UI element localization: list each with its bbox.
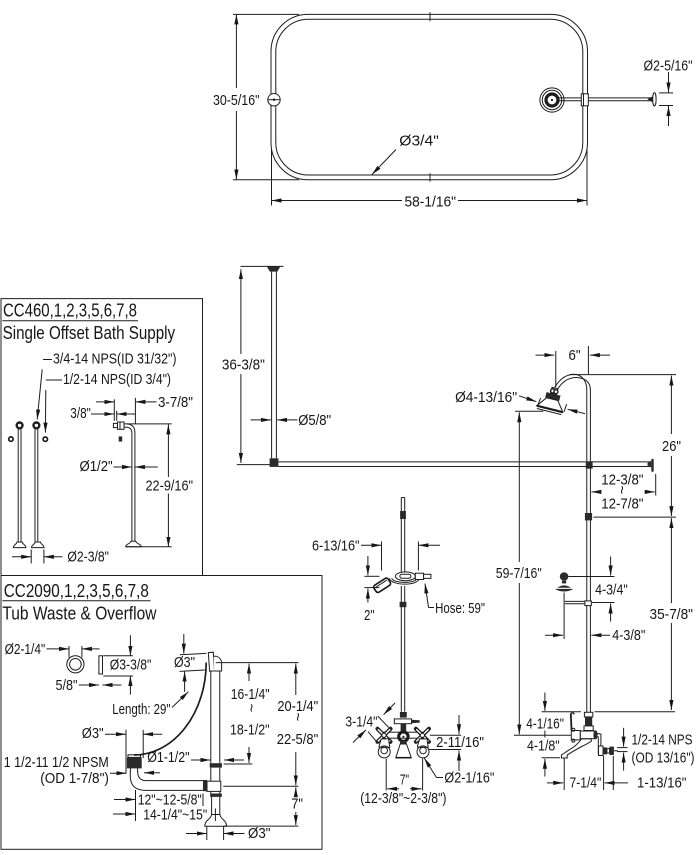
supply valve neck	[562, 581, 566, 584]
shower riser column	[455, 346, 694, 791]
hose coupling band	[400, 602, 407, 607]
svg-text:22-5/8": 22-5/8"	[277, 731, 318, 748]
ceiling support flange circles (top view)	[540, 88, 564, 112]
svg-text:6": 6"	[569, 347, 581, 364]
cradle nipple	[424, 574, 431, 578]
rod crossing fitting at rail wall	[581, 94, 588, 106]
gasket ring front	[67, 656, 84, 673]
small nut circle left	[9, 437, 13, 441]
svg-text:2": 2"	[364, 607, 374, 624]
ref line spout bottom	[542, 757, 560, 759]
svg-text:Hose: 59": Hose: 59"	[435, 600, 485, 617]
dim 16-1/4 ~ 18-1/2	[248, 664, 250, 681]
drain strainer plug	[127, 757, 142, 768]
dim 7 faucet	[385, 759, 387, 791]
tub filler right cap	[593, 730, 597, 739]
ref line faucet top	[542, 711, 581, 713]
foot base ext line	[126, 546, 172, 548]
shower head bell	[537, 396, 565, 412]
dim 7	[295, 787, 297, 797]
dim 3/8	[91, 413, 114, 415]
faucet center hub ring	[399, 732, 408, 741]
hose fitting band	[400, 511, 406, 519]
shower head collar	[545, 392, 560, 401]
NPSM arrow	[110, 772, 126, 774]
wall support rod (top view)	[558, 97, 651, 99]
waste tee body	[207, 781, 221, 791]
rail front view	[222, 266, 654, 472]
rail outer tube wall	[271, 14, 588, 179]
svg-text:7": 7"	[400, 771, 409, 788]
svg-text:5/8": 5/8"	[56, 677, 78, 694]
dim 14-1/4~15	[214, 809, 216, 822]
drain strainer plug cap	[128, 755, 141, 758]
overflow pipe mid	[210, 768, 212, 782]
rail joint tick top	[429, 12, 431, 21]
CC2090 tub waste and overflow panel	[1, 576, 322, 850]
dim 12~12-5/8	[135, 790, 137, 821]
supply elbow coupling	[585, 601, 591, 606]
svg-text:Single Offset Bath Supply: Single Offset Bath Supply	[3, 323, 176, 343]
shower head nipple	[551, 387, 558, 394]
overflow elbow body	[214, 656, 222, 671]
faucet body bar	[384, 732, 424, 738]
riser pipe above rail	[586, 391, 588, 462]
offset supply foot	[126, 541, 142, 547]
svg-text:Ø2-3/8": Ø2-3/8"	[67, 548, 109, 565]
supply pipe 2 foot	[32, 542, 45, 548]
supply valve body	[555, 585, 573, 591]
tailpiece arrow	[144, 772, 160, 774]
dim O3-3/8	[103, 655, 133, 657]
svg-text:3-7/8": 3-7/8"	[158, 394, 193, 411]
offset supply nut	[118, 422, 125, 429]
dim 6	[555, 351, 557, 387]
svg-text:Ø3": Ø3"	[248, 825, 271, 842]
tub filler union	[571, 731, 580, 740]
dim 2-11/16	[430, 734, 461, 736]
dim 36-3/8	[240, 269, 242, 354]
wall flange (edge view)	[653, 93, 656, 106]
gasket washer side view	[99, 656, 103, 674]
dim 4-1/16 / 4-1/8	[544, 693, 546, 711]
waste tee nut	[203, 780, 207, 791]
hand shower head	[373, 577, 392, 593]
tub filler stem dark	[585, 717, 592, 726]
svg-text:12-7/8": 12-7/8"	[601, 495, 643, 512]
svg-text:22-9/16": 22-9/16"	[146, 477, 194, 494]
svg-text:Length: 29": Length: 29"	[112, 701, 170, 718]
svg-text:(OD 13/16"): (OD 13/16")	[632, 749, 695, 766]
waste horizontal pipe	[146, 780, 207, 782]
dim 4-3/4	[568, 576, 614, 578]
overflow slip nut band	[210, 763, 222, 767]
overflow head cover	[208, 652, 214, 671]
right supply leg	[417, 739, 428, 747]
svg-text:CC460,1,2,3,5,6,7,8: CC460,1,2,3,5,6,7,8	[3, 301, 137, 321]
CC460 title underline	[2, 320, 138, 322]
small valve 1/2-14 NPS	[599, 746, 604, 756]
right flange ring	[417, 746, 429, 758]
svg-text:16-1/4": 16-1/4"	[231, 686, 270, 703]
hand shower and faucet assembly	[312, 498, 494, 807]
right cross handle	[416, 729, 429, 742]
ceiling support pipe	[271, 272, 273, 459]
svg-text:30-5/16": 30-5/16"	[213, 92, 260, 109]
offset supply riser pipe	[131, 433, 133, 542]
riser coupling band	[585, 513, 592, 520]
dim 3-7/8	[96, 401, 114, 403]
svg-text:Ø4-13/16": Ø4-13/16"	[455, 389, 517, 406]
svg-text:58-1/16": 58-1/16"	[405, 194, 457, 211]
offset supply elbow	[127, 424, 135, 433]
diverter column	[401, 724, 407, 732]
svg-text:7-1/4": 7-1/4"	[570, 774, 602, 791]
drain tailpiece	[129, 768, 131, 772]
dim 2	[364, 575, 379, 577]
left flange ring	[378, 746, 390, 758]
supply pipe 2	[34, 429, 36, 542]
tub spout bell	[396, 744, 412, 758]
ceiling line	[241, 265, 284, 267]
ref line faucet center	[514, 734, 571, 736]
offset supply: ext line v3	[134, 398, 136, 424]
svg-text:2-11/16": 2-11/16"	[436, 734, 484, 751]
overflow floor flange	[205, 815, 227, 827]
riser pipe rail-to-coupling	[586, 469, 588, 513]
dim O2-5/16 right	[668, 72, 670, 92]
dim O3 bottom	[206, 826, 208, 840]
tub filler body	[580, 731, 594, 739]
dim 35-7/8	[670, 518, 672, 603]
spout neck band	[400, 741, 407, 744]
tub filler nut1	[584, 712, 592, 717]
ref line drain level	[224, 763, 253, 765]
svg-text:1-13/16": 1-13/16"	[637, 774, 687, 791]
CC2090 box border	[1, 576, 322, 850]
tub filler right elbow	[597, 733, 601, 754]
ref line floor	[223, 825, 298, 827]
dim 26/35-7/8 mid ref	[593, 516, 676, 518]
gooseneck inner	[556, 378, 591, 394]
svg-text:7": 7"	[291, 796, 303, 813]
hand shower hose upper	[400, 498, 402, 573]
svg-text:Ø2-1/16": Ø2-1/16"	[444, 770, 494, 787]
tub filler nut2	[584, 726, 593, 731]
dim 7-1/4 and 1-13/16	[563, 759, 565, 791]
svg-text:~: ~	[243, 704, 260, 713]
svg-text:Ø2-1/4": Ø2-1/4"	[5, 641, 46, 658]
small nut circle right	[43, 437, 47, 441]
gooseneck outer	[553, 374, 587, 391]
svg-text:35-7/8": 35-7/8"	[650, 606, 694, 623]
rod taper at wall flange	[647, 96, 653, 102]
offset supply: ext line v1	[113, 399, 115, 421]
svg-text:4-3/8": 4-3/8"	[612, 627, 645, 644]
rail joint tick bottom	[429, 173, 431, 181]
label leader O3/4	[372, 150, 396, 175]
support-to-rail junction	[270, 458, 279, 467]
svg-text:(12-3/8"~2-3/8"): (12-3/8"~2-3/8")	[360, 790, 446, 807]
svg-text:1/2-14 NPS: 1/2-14 NPS	[632, 731, 693, 748]
rail wall flange front	[648, 461, 652, 468]
svg-text:26": 26"	[662, 438, 681, 455]
svg-text:4-3/4": 4-3/4"	[595, 582, 628, 599]
curtain rail top view	[213, 12, 693, 210]
cradle loop	[389, 578, 419, 584]
offset supply nipple	[113, 423, 117, 427]
dim 26 top ref	[569, 374, 676, 376]
dim 26	[670, 376, 672, 434]
svg-text:Ø1-1/2": Ø1-1/2"	[147, 749, 189, 766]
rail tube front	[278, 461, 650, 463]
ceiling support connector circle (top view)	[268, 94, 280, 106]
svg-text:4-1/16": 4-1/16"	[526, 715, 564, 732]
svg-text:Ø2-5/16": Ø2-5/16"	[644, 58, 693, 75]
ref line overflow top	[216, 662, 299, 664]
svg-text:Ø3": Ø3"	[82, 725, 104, 742]
CC460 single offset bath supply panel	[1, 299, 203, 576]
supply pipe 2 top nut	[34, 423, 40, 429]
tub filler union lever	[570, 714, 573, 731]
dim O2-3/8	[30, 550, 32, 564]
riser pipe mid	[586, 520, 588, 601]
svg-text:3/8": 3/8"	[70, 405, 91, 422]
dim 59-7/16	[515, 410, 543, 412]
svg-text:6-13/16": 6-13/16"	[312, 538, 360, 555]
supply horizontal pipe	[565, 600, 585, 602]
leader 1/2-14 NPS	[46, 379, 62, 381]
ref line waste bottom	[223, 785, 298, 787]
svg-text:36-3/8": 36-3/8"	[222, 357, 265, 374]
hand shower hose lower	[400, 586, 402, 712]
leader 3/4-14 NPS	[43, 359, 52, 361]
overflow pipe lower	[211, 797, 213, 815]
ceiling flange	[267, 266, 281, 271]
svg-text:Ø3/4": Ø3/4"	[399, 133, 439, 150]
overflow hose curve	[134, 663, 206, 756]
svg-text:18-1/2": 18-1/2"	[230, 722, 270, 739]
svg-text:Ø3-3/8": Ø3-3/8"	[110, 656, 152, 673]
svg-text:3-1/4": 3-1/4"	[345, 713, 377, 730]
cradle right fitting	[415, 573, 423, 579]
diverter lever	[394, 719, 411, 724]
cradle hub	[395, 572, 415, 581]
dim 22-9/16	[167, 424, 169, 477]
svg-text:Ø5/8": Ø5/8"	[298, 412, 331, 429]
overflow pipe upper	[210, 671, 212, 763]
svg-text:Tub Waste & Overflow: Tub Waste & Overflow	[2, 603, 157, 623]
offset supply marker square	[119, 436, 123, 441]
supply pipe 1 foot	[13, 542, 26, 548]
dim 30-5/16 left	[235, 14, 237, 88]
dim 20-1/4 ~ 22-5/8	[295, 664, 297, 695]
supply pipe 1 top nut	[17, 423, 23, 429]
svg-text:Ø1/2": Ø1/2"	[80, 458, 113, 475]
CC2090 title underline	[2, 600, 150, 602]
diverter stack dark	[400, 712, 407, 718]
svg-text:3/4-14 NPS(ID 31/32"): 3/4-14 NPS(ID 31/32")	[53, 351, 177, 368]
left supply leg	[379, 739, 390, 747]
shower head arm group	[536, 385, 568, 415]
dim 58-1/16 bottom	[271, 148, 273, 206]
svg-text:(OD 1-7/8"): (OD 1-7/8")	[40, 770, 109, 787]
svg-text:14-1/4"~15": 14-1/4"~15"	[143, 806, 207, 823]
left cross handle	[378, 729, 391, 742]
dim 4-3/8	[545, 634, 563, 636]
offset supply horizontal pipe / ext line	[124, 423, 172, 425]
riser pipe lower	[586, 606, 588, 713]
dim O5/8	[251, 419, 271, 421]
dim 1/2-14 NPS	[617, 747, 627, 749]
dim O3 overflow head	[180, 653, 206, 654]
svg-text:4-1/8": 4-1/8"	[527, 737, 560, 754]
supply stub line	[563, 593, 565, 640]
offset supply: ext line v2	[116, 411, 118, 421]
supply pipe 1	[17, 429, 19, 542]
svg-text:1 1/2-11 1/2 NPSM: 1 1/2-11 1/2 NPSM	[4, 754, 109, 771]
leader Length 29	[172, 692, 188, 708]
supply valve knob	[560, 572, 569, 581]
svg-text:~: ~	[289, 713, 306, 722]
riser-to-rail junction	[586, 461, 593, 468]
svg-text:Ø3": Ø3"	[174, 654, 195, 671]
tub spout	[561, 739, 591, 758]
svg-text:59-7/16": 59-7/16"	[496, 565, 542, 582]
CC460 box border	[1, 299, 203, 576]
svg-text:1/2-14 NPS(ID 3/4"): 1/2-14 NPS(ID 3/4")	[63, 371, 171, 388]
svg-text:CC2090,1,2,3,5,6,7,8: CC2090,1,2,3,5,6,7,8	[4, 581, 149, 601]
drain elbow	[130, 771, 146, 790]
tee lower band	[210, 794, 222, 797]
svg-text:~: ~	[613, 486, 630, 495]
rail inner tube wall	[276, 19, 583, 175]
